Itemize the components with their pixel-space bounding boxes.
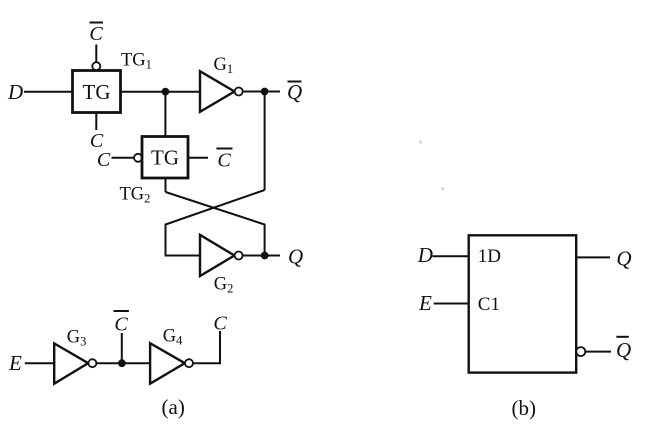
svg-text:Q: Q [287, 80, 302, 104]
svg-text:Q: Q [616, 338, 631, 362]
node Q-bar output label (b) [616, 337, 631, 362]
wire E to G3 [25, 362, 55, 364]
svg-text:Q: Q [288, 245, 303, 269]
wire crossover diagonal from Qbar to G2 input [166, 190, 265, 256]
svg-text:E: E [418, 291, 432, 315]
svg-text:C: C [89, 23, 103, 45]
bubble on TG2 left control pin [134, 154, 142, 162]
svg-text:G3: G3 [67, 328, 87, 349]
wire crossover diagonal from TG2 to Q [166, 192, 265, 256]
svg-text:C: C [213, 313, 227, 335]
svg-text:TG: TG [83, 80, 111, 104]
junction dot at TG1 output node [162, 88, 170, 96]
wire G4 output to C [193, 331, 220, 363]
wire G1 output to Qbar [243, 91, 281, 93]
scan speck [419, 140, 422, 143]
wire D to box [432, 255, 468, 257]
svg-text:G4: G4 [163, 326, 183, 347]
svg-text:D: D [7, 80, 23, 104]
inverter G3 [54, 343, 96, 383]
svg-text:G1: G1 [214, 55, 234, 76]
wire TG2 output down [165, 178, 167, 192]
junction dot at Q node [261, 252, 269, 260]
svg-text:1D: 1D [478, 246, 501, 267]
wire TG1 bottom control [95, 113, 97, 131]
wire Cbar label to junction [121, 333, 123, 363]
wire TG2 right control [188, 157, 208, 159]
bubble on Qbar output (b) [576, 347, 585, 356]
svg-text:E: E [8, 351, 22, 375]
svg-text:Q: Q [616, 247, 631, 271]
wire TG1 output to G1 input [121, 91, 201, 93]
bubble on TG1 top control pin [92, 62, 100, 70]
wire E to box [434, 303, 469, 305]
wire C to TG2 bubble [112, 157, 135, 159]
svg-text:(b): (b) [512, 396, 537, 420]
wire G3 output to Cbar node [96, 362, 150, 364]
scan speck [441, 187, 444, 190]
wire Q output (b) [576, 256, 610, 258]
wire junction down to TG2 top [164, 92, 166, 137]
flip-flop symbol box (b) [469, 235, 577, 372]
junction dot at Cbar node [118, 359, 126, 367]
svg-text:TG2: TG2 [120, 185, 151, 206]
svg-text:TG1: TG1 [121, 51, 152, 72]
wire C-bar to TG1 bubble [95, 45, 97, 63]
inverter G4 [150, 343, 193, 384]
svg-text:C: C [217, 150, 231, 172]
transmission gate TG1 [73, 71, 445, 191]
transmission gate TG2 [142, 137, 188, 179]
svg-text:C: C [114, 314, 128, 336]
wire G2 output to Q [242, 255, 280, 257]
wire Qbar node down to crossover [264, 92, 266, 191]
node C-bar label (top) [89, 23, 103, 46]
wire Qbar output (b) [585, 351, 611, 353]
node Q-bar output label [287, 80, 302, 104]
svg-text:TG: TG [151, 146, 179, 170]
svg-text:D: D [417, 243, 433, 267]
node C-bar label (bottom) [114, 311, 129, 336]
svg-text:C: C [97, 149, 111, 171]
inverter G2 [200, 235, 243, 276]
inverter G1 [200, 71, 243, 112]
svg-text:C1: C1 [478, 294, 500, 315]
svg-text:(a): (a) [162, 395, 185, 419]
wire D to TG1 [24, 91, 73, 93]
node C-bar label (TG2 right) [216, 149, 232, 172]
svg-text:G2: G2 [214, 275, 234, 296]
junction dot at Qbar node [261, 88, 269, 96]
